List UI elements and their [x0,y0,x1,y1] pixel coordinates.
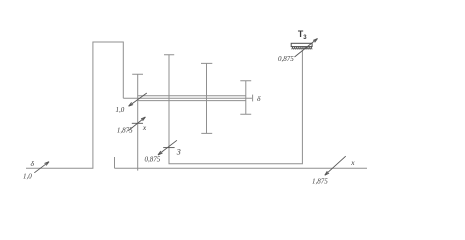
leader arrow: delta 1,0 at left ground line [34,162,49,173]
wire: outer shield top line [138,95,246,97]
svg-text:1,875: 1,875 [312,177,328,185]
svg-text:0,875: 0,875 [145,155,161,163]
axis arrow: x / 1,875 at stub T1 [128,117,145,131]
svg-text:1,875: 1,875 [117,127,133,135]
wire: main line center conductor [123,97,252,99]
stub T4 line [240,81,251,115]
svg-text:1,0: 1,0 [23,173,32,181]
hatching of termination block [292,47,312,49]
ground step notch [114,157,116,168]
svg-text:δ: δ [257,94,261,103]
ground baseline (x axis) [115,167,368,169]
leader arrow: 1,0 at main line [129,93,147,106]
wire: outer shield bottom line [138,100,246,102]
wire: left outer conductor outline (ground step) [26,42,123,168]
leader arrow: 0,875 at stub T2 lower line [158,140,177,155]
svg-text:x: x [350,158,355,167]
svg-text:3: 3 [176,147,181,156]
svg-text:x: x [142,123,147,132]
wire: center conductor end tick [252,95,254,102]
leader arrow: 0,875 at termination block [295,39,318,58]
svg-text:1,0: 1,0 [116,106,125,114]
termination block T3 (short circuit wall) [291,43,312,46]
leader arrow: 1,875 at baseline right [325,156,346,175]
svg-text:0,875: 0,875 [278,55,294,63]
stub T2 with return path to termination [164,50,302,164]
stub T1 (x axis line) [132,74,143,170]
svg-text:T3: T3 [298,29,307,41]
stub T3 line [201,63,212,133]
svg-text:δ: δ [31,159,35,168]
